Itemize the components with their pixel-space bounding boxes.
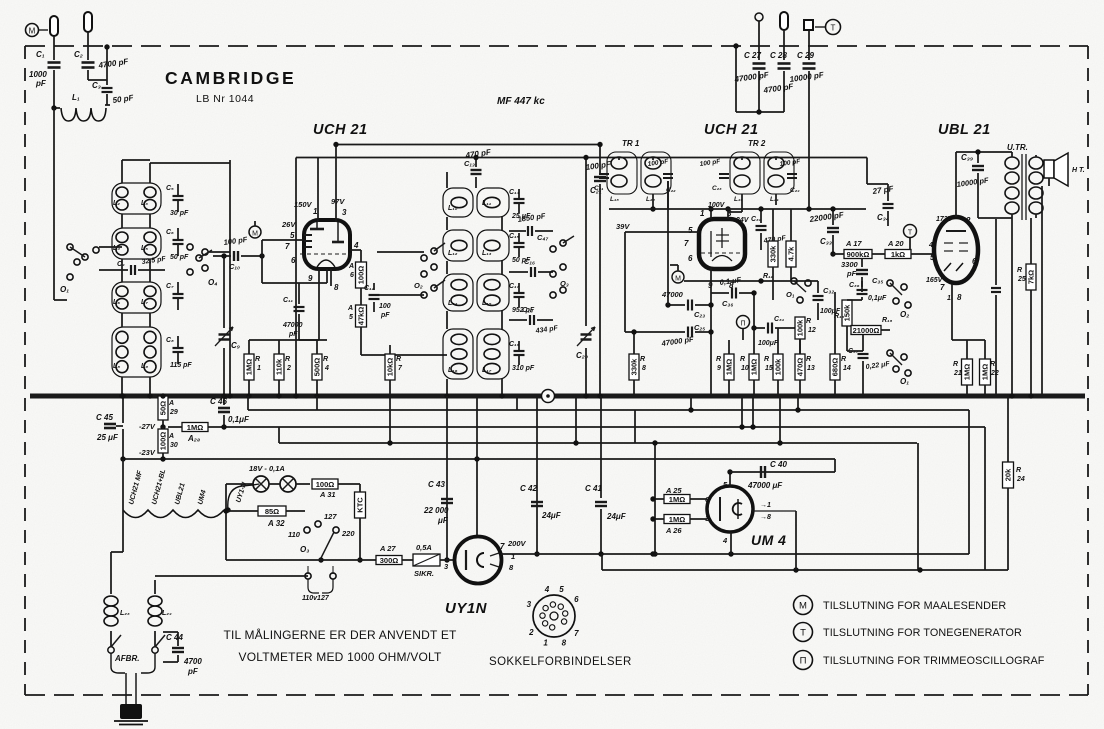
svg-text:25: 25 bbox=[1017, 276, 1026, 283]
svg-text:O₁: O₁ bbox=[786, 290, 795, 299]
svg-text:R₁₉: R₁₉ bbox=[882, 317, 893, 324]
svg-text:R: R bbox=[716, 356, 721, 363]
svg-text:127: 127 bbox=[324, 512, 337, 521]
svg-text:TILSLUTNING FOR MAALESENDER: TILSLUTNING FOR MAALESENDER bbox=[823, 600, 1006, 612]
svg-text:1kΩ: 1kΩ bbox=[891, 250, 905, 259]
svg-text:O₁: O₁ bbox=[900, 377, 909, 386]
svg-text:L₁₁: L₁₁ bbox=[482, 200, 492, 207]
svg-text:C₁₂: C₁₂ bbox=[364, 285, 375, 292]
svg-text:7: 7 bbox=[940, 283, 945, 292]
svg-text:UCH 21: UCH 21 bbox=[704, 122, 759, 138]
svg-text:7: 7 bbox=[500, 542, 505, 551]
svg-text:12: 12 bbox=[808, 327, 816, 334]
svg-text:13: 13 bbox=[807, 365, 815, 372]
svg-text:26V: 26V bbox=[281, 220, 296, 229]
svg-text:R: R bbox=[806, 318, 811, 325]
svg-text:L₈: L₈ bbox=[113, 363, 120, 370]
svg-text:470Ω: 470Ω bbox=[796, 358, 805, 377]
svg-text:100k: 100k bbox=[774, 358, 783, 376]
svg-text:R: R bbox=[841, 356, 846, 363]
svg-text:R: R bbox=[640, 356, 645, 363]
svg-text:C₁₅: C₁₅ bbox=[509, 233, 520, 240]
svg-text:L₇: L₇ bbox=[141, 299, 148, 306]
svg-text:Π: Π bbox=[740, 321, 745, 328]
svg-text:34V: 34V bbox=[736, 217, 750, 224]
svg-text:97V: 97V bbox=[331, 197, 345, 206]
svg-text:7: 7 bbox=[574, 629, 579, 638]
svg-text:115 pF: 115 pF bbox=[170, 362, 192, 369]
svg-text:C₃₉: C₃₉ bbox=[961, 153, 973, 162]
svg-text:7: 7 bbox=[684, 239, 689, 248]
svg-text:A₂₈: A₂₈ bbox=[187, 434, 200, 443]
svg-text:L₉: L₉ bbox=[141, 363, 148, 370]
svg-text:A 31: A 31 bbox=[319, 490, 336, 499]
svg-text:L₁₀: L₁₀ bbox=[448, 205, 458, 212]
svg-text:C 28: C 28 bbox=[770, 51, 787, 60]
svg-text:A 17: A 17 bbox=[845, 239, 862, 248]
svg-text:1MΩ: 1MΩ bbox=[981, 364, 990, 380]
svg-text:C₃₆: C₃₆ bbox=[849, 282, 860, 289]
svg-text:4: 4 bbox=[544, 585, 550, 594]
svg-text:6: 6 bbox=[688, 254, 693, 263]
svg-text:C₄₇: C₄₇ bbox=[537, 233, 548, 242]
svg-text:8: 8 bbox=[334, 283, 339, 292]
svg-text:8: 8 bbox=[562, 638, 567, 647]
svg-text:C₁₃: C₁₃ bbox=[464, 159, 475, 168]
svg-text:C₁₆: C₁₆ bbox=[524, 257, 535, 266]
svg-text:9: 9 bbox=[717, 365, 721, 372]
svg-text:A 26: A 26 bbox=[665, 526, 682, 535]
svg-text:R: R bbox=[953, 361, 958, 368]
svg-text:C₁₁: C₁₁ bbox=[283, 297, 294, 304]
svg-text:C₃₆: C₃₆ bbox=[722, 299, 733, 308]
svg-text:6: 6 bbox=[574, 595, 579, 604]
svg-text:14: 14 bbox=[843, 365, 851, 372]
svg-text:24μF: 24μF bbox=[541, 511, 562, 520]
svg-text:O₁: O₁ bbox=[60, 285, 69, 294]
svg-text:C₂: C₂ bbox=[74, 50, 83, 59]
svg-text:R: R bbox=[764, 356, 769, 363]
svg-text:C 46: C 46 bbox=[210, 397, 227, 406]
svg-text:C 41: C 41 bbox=[585, 484, 602, 493]
svg-text:5: 5 bbox=[688, 226, 693, 235]
svg-text:3300: 3300 bbox=[841, 260, 859, 269]
svg-text:6: 6 bbox=[350, 272, 354, 279]
svg-text:5: 5 bbox=[290, 231, 295, 240]
svg-text:R: R bbox=[990, 361, 995, 368]
svg-text:85Ω: 85Ω bbox=[265, 507, 279, 516]
svg-text:1: 1 bbox=[543, 639, 548, 648]
svg-text:3: 3 bbox=[527, 600, 532, 609]
svg-text:C₁₄: C₁₄ bbox=[509, 189, 520, 196]
svg-text:L₁₅: L₁₅ bbox=[482, 300, 492, 307]
svg-text:pF: pF bbox=[35, 79, 47, 88]
svg-text:UY1N: UY1N bbox=[445, 600, 488, 617]
svg-text:C₁₈: C₁₈ bbox=[522, 305, 533, 314]
svg-text:C₃₃: C₃₃ bbox=[820, 237, 832, 246]
svg-text:110v127: 110v127 bbox=[302, 595, 330, 602]
svg-text:L₁₇: L₁₇ bbox=[482, 367, 492, 374]
svg-text:1: 1 bbox=[947, 295, 951, 302]
svg-text:L₂: L₂ bbox=[113, 200, 120, 207]
svg-text:pF: pF bbox=[846, 269, 857, 278]
svg-text:L₂₁: L₂₁ bbox=[770, 196, 779, 203]
svg-text:L₅: L₅ bbox=[141, 245, 148, 252]
svg-text:50 pF: 50 pF bbox=[170, 254, 189, 261]
svg-text:C₂₃: C₂₃ bbox=[694, 310, 705, 319]
svg-text:39V: 39V bbox=[616, 222, 630, 231]
svg-text:4700: 4700 bbox=[183, 657, 202, 666]
svg-text:A: A bbox=[168, 400, 174, 407]
svg-text:C₂₅: C₂₅ bbox=[694, 323, 705, 332]
svg-text:6: 6 bbox=[972, 257, 977, 266]
svg-text:C₂₃: C₂₃ bbox=[712, 185, 722, 192]
svg-text:L₁₈: L₁₈ bbox=[610, 196, 619, 203]
svg-text:M: M bbox=[252, 231, 258, 238]
svg-text:100Ω: 100Ω bbox=[159, 432, 168, 451]
svg-text:3: 3 bbox=[342, 208, 347, 217]
svg-text:C₄: C₄ bbox=[117, 261, 125, 268]
svg-text:→8: →8 bbox=[760, 514, 771, 521]
svg-text:A: A bbox=[348, 263, 354, 270]
svg-text:C₈: C₈ bbox=[166, 337, 174, 344]
svg-text:TILSLUTNING FOR TONEGENERATOR: TILSLUTNING FOR TONEGENERATOR bbox=[823, 627, 1022, 639]
svg-text:330k: 330k bbox=[769, 245, 778, 263]
svg-text:TR 2: TR 2 bbox=[748, 139, 766, 148]
svg-text:L₂₀: L₂₀ bbox=[646, 196, 655, 203]
svg-text:110k: 110k bbox=[275, 358, 284, 375]
svg-text:100μF: 100μF bbox=[758, 340, 779, 347]
svg-text:O₃: O₃ bbox=[300, 545, 309, 554]
svg-text:30 pF: 30 pF bbox=[170, 210, 189, 217]
svg-text:U.TR.: U.TR. bbox=[1007, 143, 1028, 152]
svg-text:R: R bbox=[285, 356, 290, 363]
svg-text:SOKKELFORBINDELSER: SOKKELFORBINDELSER bbox=[489, 656, 632, 668]
svg-text:R₁₁: R₁₁ bbox=[763, 273, 774, 280]
svg-text:47000 μF: 47000 μF bbox=[747, 481, 783, 490]
svg-text:7kΩ: 7kΩ bbox=[1027, 270, 1036, 284]
svg-text:UM 4: UM 4 bbox=[751, 532, 786, 548]
svg-text:5: 5 bbox=[930, 253, 935, 262]
svg-text:4: 4 bbox=[324, 365, 329, 372]
svg-text:M: M bbox=[799, 601, 807, 612]
svg-text:C₁₉: C₁₉ bbox=[509, 341, 520, 348]
svg-text:A: A bbox=[168, 433, 174, 440]
svg-text:A 27: A 27 bbox=[379, 544, 396, 553]
svg-text:8: 8 bbox=[957, 293, 962, 302]
svg-text:0,1μF: 0,1μF bbox=[228, 415, 250, 424]
svg-text:R: R bbox=[740, 356, 745, 363]
svg-text:A 25: A 25 bbox=[665, 486, 682, 495]
svg-text:21: 21 bbox=[953, 370, 962, 377]
svg-text:R: R bbox=[1017, 267, 1022, 274]
svg-text:R: R bbox=[255, 356, 260, 363]
svg-text:0,5A: 0,5A bbox=[416, 543, 432, 552]
svg-text:C 42: C 42 bbox=[520, 484, 537, 493]
svg-text:1000: 1000 bbox=[29, 70, 47, 79]
svg-text:25 μF: 25 μF bbox=[96, 433, 119, 442]
svg-text:22: 22 bbox=[990, 370, 999, 377]
svg-text:47kΩ: 47kΩ bbox=[357, 307, 366, 326]
svg-text:UCH 21: UCH 21 bbox=[313, 122, 368, 138]
svg-text:110: 110 bbox=[288, 530, 301, 539]
svg-text:310 pF: 310 pF bbox=[512, 365, 535, 372]
svg-text:-23V: -23V bbox=[139, 448, 156, 457]
svg-text:L₃: L₃ bbox=[141, 200, 148, 207]
svg-text:9: 9 bbox=[308, 274, 313, 283]
svg-text:22 000: 22 000 bbox=[423, 506, 449, 515]
svg-text:KTC: KTC bbox=[356, 497, 365, 513]
svg-text:4: 4 bbox=[928, 242, 933, 249]
svg-text:4: 4 bbox=[722, 536, 728, 545]
svg-text:C₇: C₇ bbox=[166, 283, 174, 290]
svg-text:M: M bbox=[29, 27, 36, 36]
svg-text:L₁: L₁ bbox=[72, 93, 80, 102]
svg-text:330k: 330k bbox=[630, 358, 639, 376]
svg-text:UBL 21: UBL 21 bbox=[938, 122, 991, 138]
svg-text:C 45: C 45 bbox=[96, 413, 113, 422]
svg-text:-27V: -27V bbox=[139, 422, 156, 431]
svg-text:0,1μF: 0,1μF bbox=[868, 295, 887, 302]
svg-text:C 43: C 43 bbox=[428, 480, 445, 489]
svg-text:T: T bbox=[831, 24, 836, 33]
svg-text:TIL MÅLINGERNE ER DER ANVENDT: TIL MÅLINGERNE ER DER ANVENDT ET bbox=[223, 627, 457, 642]
svg-text:200V: 200V bbox=[507, 539, 527, 548]
svg-text:C₆: C₆ bbox=[166, 229, 174, 236]
svg-text:29: 29 bbox=[169, 409, 178, 416]
svg-text:C₁₀: C₁₀ bbox=[229, 262, 240, 271]
svg-text:H T.: H T. bbox=[1072, 167, 1085, 174]
svg-text:L₁₄: L₁₄ bbox=[448, 300, 458, 307]
svg-text:2: 2 bbox=[286, 365, 291, 372]
svg-text:7: 7 bbox=[285, 242, 290, 251]
svg-text:24: 24 bbox=[1016, 476, 1025, 483]
svg-text:R: R bbox=[806, 356, 811, 363]
svg-text:1MΩ: 1MΩ bbox=[245, 359, 254, 375]
svg-text:4.7k: 4.7k bbox=[787, 246, 796, 261]
svg-text:C₃₂: C₃₂ bbox=[823, 286, 834, 295]
svg-text:μF: μF bbox=[437, 516, 449, 525]
svg-text:C₁: C₁ bbox=[36, 50, 45, 59]
svg-text:18V - 0,1A: 18V - 0,1A bbox=[249, 464, 285, 473]
svg-text:30: 30 bbox=[170, 442, 178, 449]
svg-text:C₃₅: C₃₅ bbox=[872, 276, 883, 285]
svg-text:pF: pF bbox=[380, 312, 390, 319]
svg-text:C 40: C 40 bbox=[770, 460, 787, 469]
svg-text:R: R bbox=[1016, 467, 1021, 474]
svg-text:21000Ω: 21000Ω bbox=[853, 326, 880, 335]
svg-text:L₁₆: L₁₆ bbox=[448, 367, 458, 374]
svg-text:C₉: C₉ bbox=[231, 341, 240, 350]
svg-text:4: 4 bbox=[353, 241, 359, 250]
svg-text:50Ω: 50Ω bbox=[159, 401, 168, 415]
svg-text:TR 1: TR 1 bbox=[622, 139, 640, 148]
svg-text:C 27: C 27 bbox=[744, 51, 761, 60]
svg-text:500Ω: 500Ω bbox=[313, 358, 322, 377]
svg-text:5: 5 bbox=[349, 314, 353, 321]
svg-text:O₄: O₄ bbox=[208, 278, 217, 287]
svg-text:100Ω: 100Ω bbox=[316, 480, 335, 489]
svg-text:900kΩ: 900kΩ bbox=[847, 250, 870, 259]
svg-text:L₄: L₄ bbox=[113, 245, 120, 252]
svg-text:VOLTMETER MED 1000 OHM/VOLT: VOLTMETER MED 1000 OHM/VOLT bbox=[239, 650, 442, 664]
svg-text:C₂₄: C₂₄ bbox=[790, 187, 800, 194]
svg-text:1MΩ: 1MΩ bbox=[669, 515, 685, 524]
svg-text:T: T bbox=[908, 230, 913, 237]
svg-text:A 32: A 32 bbox=[267, 519, 285, 528]
svg-text:100k: 100k bbox=[796, 319, 805, 337]
svg-text:8: 8 bbox=[642, 365, 646, 372]
svg-text:TILSLUTNING FOR TRIMMEOSCILLOG: TILSLUTNING FOR TRIMMEOSCILLOGRAF bbox=[823, 655, 1045, 667]
svg-text:R: R bbox=[323, 356, 328, 363]
svg-text:O₃: O₃ bbox=[560, 279, 569, 288]
svg-text:pF: pF bbox=[187, 667, 199, 676]
svg-text:10kΩ: 10kΩ bbox=[386, 358, 395, 377]
svg-text:15: 15 bbox=[765, 365, 773, 372]
svg-text:1MΩ: 1MΩ bbox=[750, 359, 759, 375]
svg-text:1MΩ: 1MΩ bbox=[187, 423, 203, 432]
svg-text:M: M bbox=[675, 276, 681, 283]
svg-text:C₃: C₃ bbox=[92, 81, 101, 90]
svg-text:C₅: C₅ bbox=[166, 185, 174, 192]
svg-text:2: 2 bbox=[528, 628, 534, 637]
svg-text:173V: 173V bbox=[936, 216, 954, 223]
svg-text:L₂₃: L₂₃ bbox=[120, 610, 130, 617]
svg-text:100: 100 bbox=[379, 303, 391, 310]
svg-text:C 29: C 29 bbox=[797, 51, 814, 60]
svg-text:L₁₂: L₁₂ bbox=[448, 250, 458, 257]
svg-text:→1: →1 bbox=[760, 502, 771, 509]
svg-text:5: 5 bbox=[559, 585, 564, 594]
svg-text:10: 10 bbox=[741, 365, 749, 372]
svg-text:O₂: O₂ bbox=[900, 310, 909, 319]
svg-text:AFBR.: AFBR. bbox=[114, 654, 139, 663]
svg-text:2: 2 bbox=[965, 216, 971, 225]
svg-text:C₁₇: C₁₇ bbox=[509, 283, 520, 290]
svg-text:C 44: C 44 bbox=[166, 633, 183, 642]
svg-text:R: R bbox=[396, 356, 401, 363]
svg-text:1MΩ: 1MΩ bbox=[725, 359, 734, 375]
svg-text:1: 1 bbox=[257, 365, 261, 372]
svg-text:LB Nr 1044: LB Nr 1044 bbox=[196, 93, 254, 105]
svg-text:1: 1 bbox=[700, 209, 705, 218]
svg-text:220: 220 bbox=[341, 529, 355, 538]
svg-text:1MΩ: 1MΩ bbox=[963, 364, 972, 380]
svg-text:L₆: L₆ bbox=[113, 299, 120, 306]
svg-text:47000: 47000 bbox=[661, 290, 684, 299]
svg-text:680Ω: 680Ω bbox=[831, 358, 840, 377]
svg-text:CAMBRIDGE: CAMBRIDGE bbox=[165, 68, 296, 88]
svg-text:A 20: A 20 bbox=[887, 239, 904, 248]
svg-text:20k: 20k bbox=[1004, 468, 1013, 481]
svg-text:A: A bbox=[347, 305, 353, 312]
svg-text:MF 447 kc: MF 447 kc bbox=[497, 96, 545, 107]
svg-text:O₂: O₂ bbox=[414, 281, 423, 290]
svg-text:1MΩ: 1MΩ bbox=[669, 495, 685, 504]
svg-text:24μF: 24μF bbox=[606, 512, 627, 521]
svg-text:R₁₆: R₁₆ bbox=[834, 313, 845, 320]
svg-text:100Ω: 100Ω bbox=[357, 266, 366, 285]
svg-text:T: T bbox=[800, 628, 806, 639]
svg-text:L₂₄: L₂₄ bbox=[162, 610, 172, 617]
svg-text:SIKR.: SIKR. bbox=[414, 569, 434, 578]
svg-text:C₂₁: C₂₁ bbox=[594, 185, 603, 192]
svg-text:300Ω: 300Ω bbox=[380, 556, 399, 565]
svg-text:L₁₃: L₁₃ bbox=[482, 250, 492, 257]
svg-text:C₃₁: C₃₁ bbox=[774, 316, 785, 323]
svg-text:Π: Π bbox=[800, 656, 807, 667]
